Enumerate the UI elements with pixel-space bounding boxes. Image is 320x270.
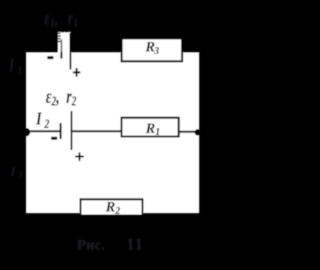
wire: middle-center segment (battery E2 to resistor R1) [72, 130, 120, 132]
polarity - for battery E1 [47, 56, 53, 59]
wire: middle-left segment (node A to battery E2) [26, 130, 60, 132]
resistor R1 (box) [122, 118, 179, 137]
white halo around battery E1 plates [58, 32, 71, 53]
battery E2 positive plate (long) [71, 111, 73, 150]
svg-text:Рис.11: Рис.11 [77, 235, 144, 254]
resistor R3 (box) [122, 38, 183, 61]
svg-text:I3: I3 [10, 164, 23, 181]
svg-text:ε1,r1: ε1,r1 [44, 7, 78, 30]
wire: middle-right segment (resistor R1 to node B) [180, 131, 200, 133]
junction node A (left dot) [21, 128, 30, 137]
battery E2 negative plate (short) [60, 123, 62, 139]
battery E1 positive plate (long) [70, 33, 72, 70]
junction node B (right dot) [195, 129, 201, 135]
hatch ticks on halo top edge [57, 31, 67, 42]
battery E1 negative plate (short) [61, 40, 63, 53]
polarity + for battery E1 [73, 68, 80, 77]
polarity - for battery E2 [51, 137, 57, 140]
circuit interior background (white panel bounded by outer wires) [26, 52, 199, 213]
svg-text:I1: I1 [8, 54, 22, 77]
polarity + for battery E2 [75, 152, 83, 161]
resistor R2 (box) [81, 199, 143, 215]
